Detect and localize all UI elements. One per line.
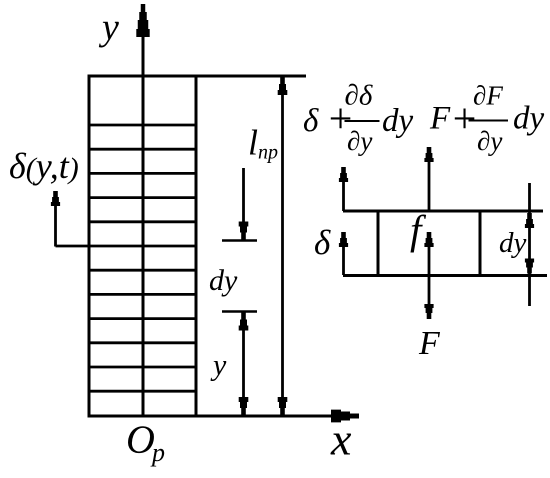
x axis shaft <box>89 415 334 418</box>
svg-text:δ: δ <box>303 103 319 139</box>
mid dimension bottom down arrowhead <box>239 397 249 415</box>
lnp dimension bottom arrowhead <box>278 397 288 415</box>
svg-text:δ: δ <box>314 223 331 262</box>
plate rung y=173.4 <box>89 172 196 175</box>
svg-text:l: l <box>248 123 258 163</box>
svg-text:dy: dy <box>499 227 527 259</box>
svg-text:F: F <box>418 325 441 362</box>
delta force arrowhead <box>339 232 348 247</box>
svg-text:y: y <box>98 7 119 49</box>
mid dimension upper-segment down arrowhead <box>239 222 249 240</box>
svg-text:np: np <box>258 142 278 164</box>
plate rung y=149.2 <box>89 148 196 151</box>
svg-text:dy: dy <box>382 103 414 139</box>
delta(y,t) pointer arrowhead <box>51 191 60 206</box>
lnp dimension line shaft <box>281 79 284 413</box>
mid dimension line upper segment <box>242 168 245 238</box>
plate rung y=246 <box>89 245 196 248</box>
svg-text:dy: dy <box>513 101 545 137</box>
upper-center force arrow shaft <box>428 162 431 211</box>
plate rung y=318.6 <box>89 317 196 320</box>
dy tick upper <box>222 239 257 242</box>
delta force arrow shaft <box>342 247 345 275</box>
plate rung y=221.8 <box>89 220 196 223</box>
dy dimension line right <box>528 183 531 306</box>
y axis shaft <box>142 32 145 416</box>
y axis arrowhead <box>136 4 149 37</box>
upper-center force arrowhead <box>424 147 433 162</box>
x axis arrowhead <box>331 410 359 423</box>
plate rung y=270.2 <box>89 269 196 272</box>
delta plus partial label: fraction bar <box>345 120 380 122</box>
svg-text:x: x <box>330 414 352 465</box>
F force arrowhead <box>424 304 433 319</box>
f friction arrowhead <box>424 232 433 247</box>
plate rung y=197.6 <box>89 196 196 199</box>
mid dimension line lower segment <box>242 314 245 413</box>
delta(y,t) pointer vertical wire <box>54 205 57 247</box>
svg-text:∂F: ∂F <box>473 81 503 111</box>
svg-text:dy: dy <box>209 264 238 297</box>
upper-left force arrowhead <box>339 167 348 182</box>
upper-left force arrow shaft <box>342 182 345 211</box>
mid dimension up arrowhead at lower tick <box>239 313 249 331</box>
plate rung y=367 <box>89 366 196 369</box>
element left divider <box>377 211 380 276</box>
dy dimension up arrowhead <box>525 213 534 228</box>
svg-text:δ(y,t): δ(y,t) <box>9 146 79 186</box>
plate rung y=391.2 <box>89 390 196 393</box>
top edge extension line <box>196 75 306 78</box>
plate rung y=342.8 <box>89 341 196 344</box>
svg-text:y: y <box>210 349 227 382</box>
F force arrow shaft <box>428 275 431 305</box>
svg-text:F: F <box>429 101 451 137</box>
svg-text:∂δ: ∂δ <box>345 80 373 112</box>
f friction arrow shaft <box>428 247 431 275</box>
svg-text:p: p <box>150 438 165 467</box>
F plus partial label: fraction bar <box>469 120 509 122</box>
element bottom face line <box>343 274 547 277</box>
plate rung y=294.4 <box>89 293 196 296</box>
svg-text:∂y: ∂y <box>477 126 502 156</box>
delta(y,t) pointer horizontal wire <box>56 245 90 248</box>
element right divider <box>479 211 482 276</box>
dy dimension down arrowhead <box>525 259 534 274</box>
plate rectangle outline <box>89 76 196 416</box>
svg-text:O: O <box>126 417 155 462</box>
svg-text:∂y: ∂y <box>347 126 372 156</box>
lnp dimension top arrowhead <box>278 77 288 95</box>
dy tick lower <box>222 310 257 313</box>
plate rung y=125 <box>89 124 196 127</box>
element top face line <box>343 210 543 213</box>
